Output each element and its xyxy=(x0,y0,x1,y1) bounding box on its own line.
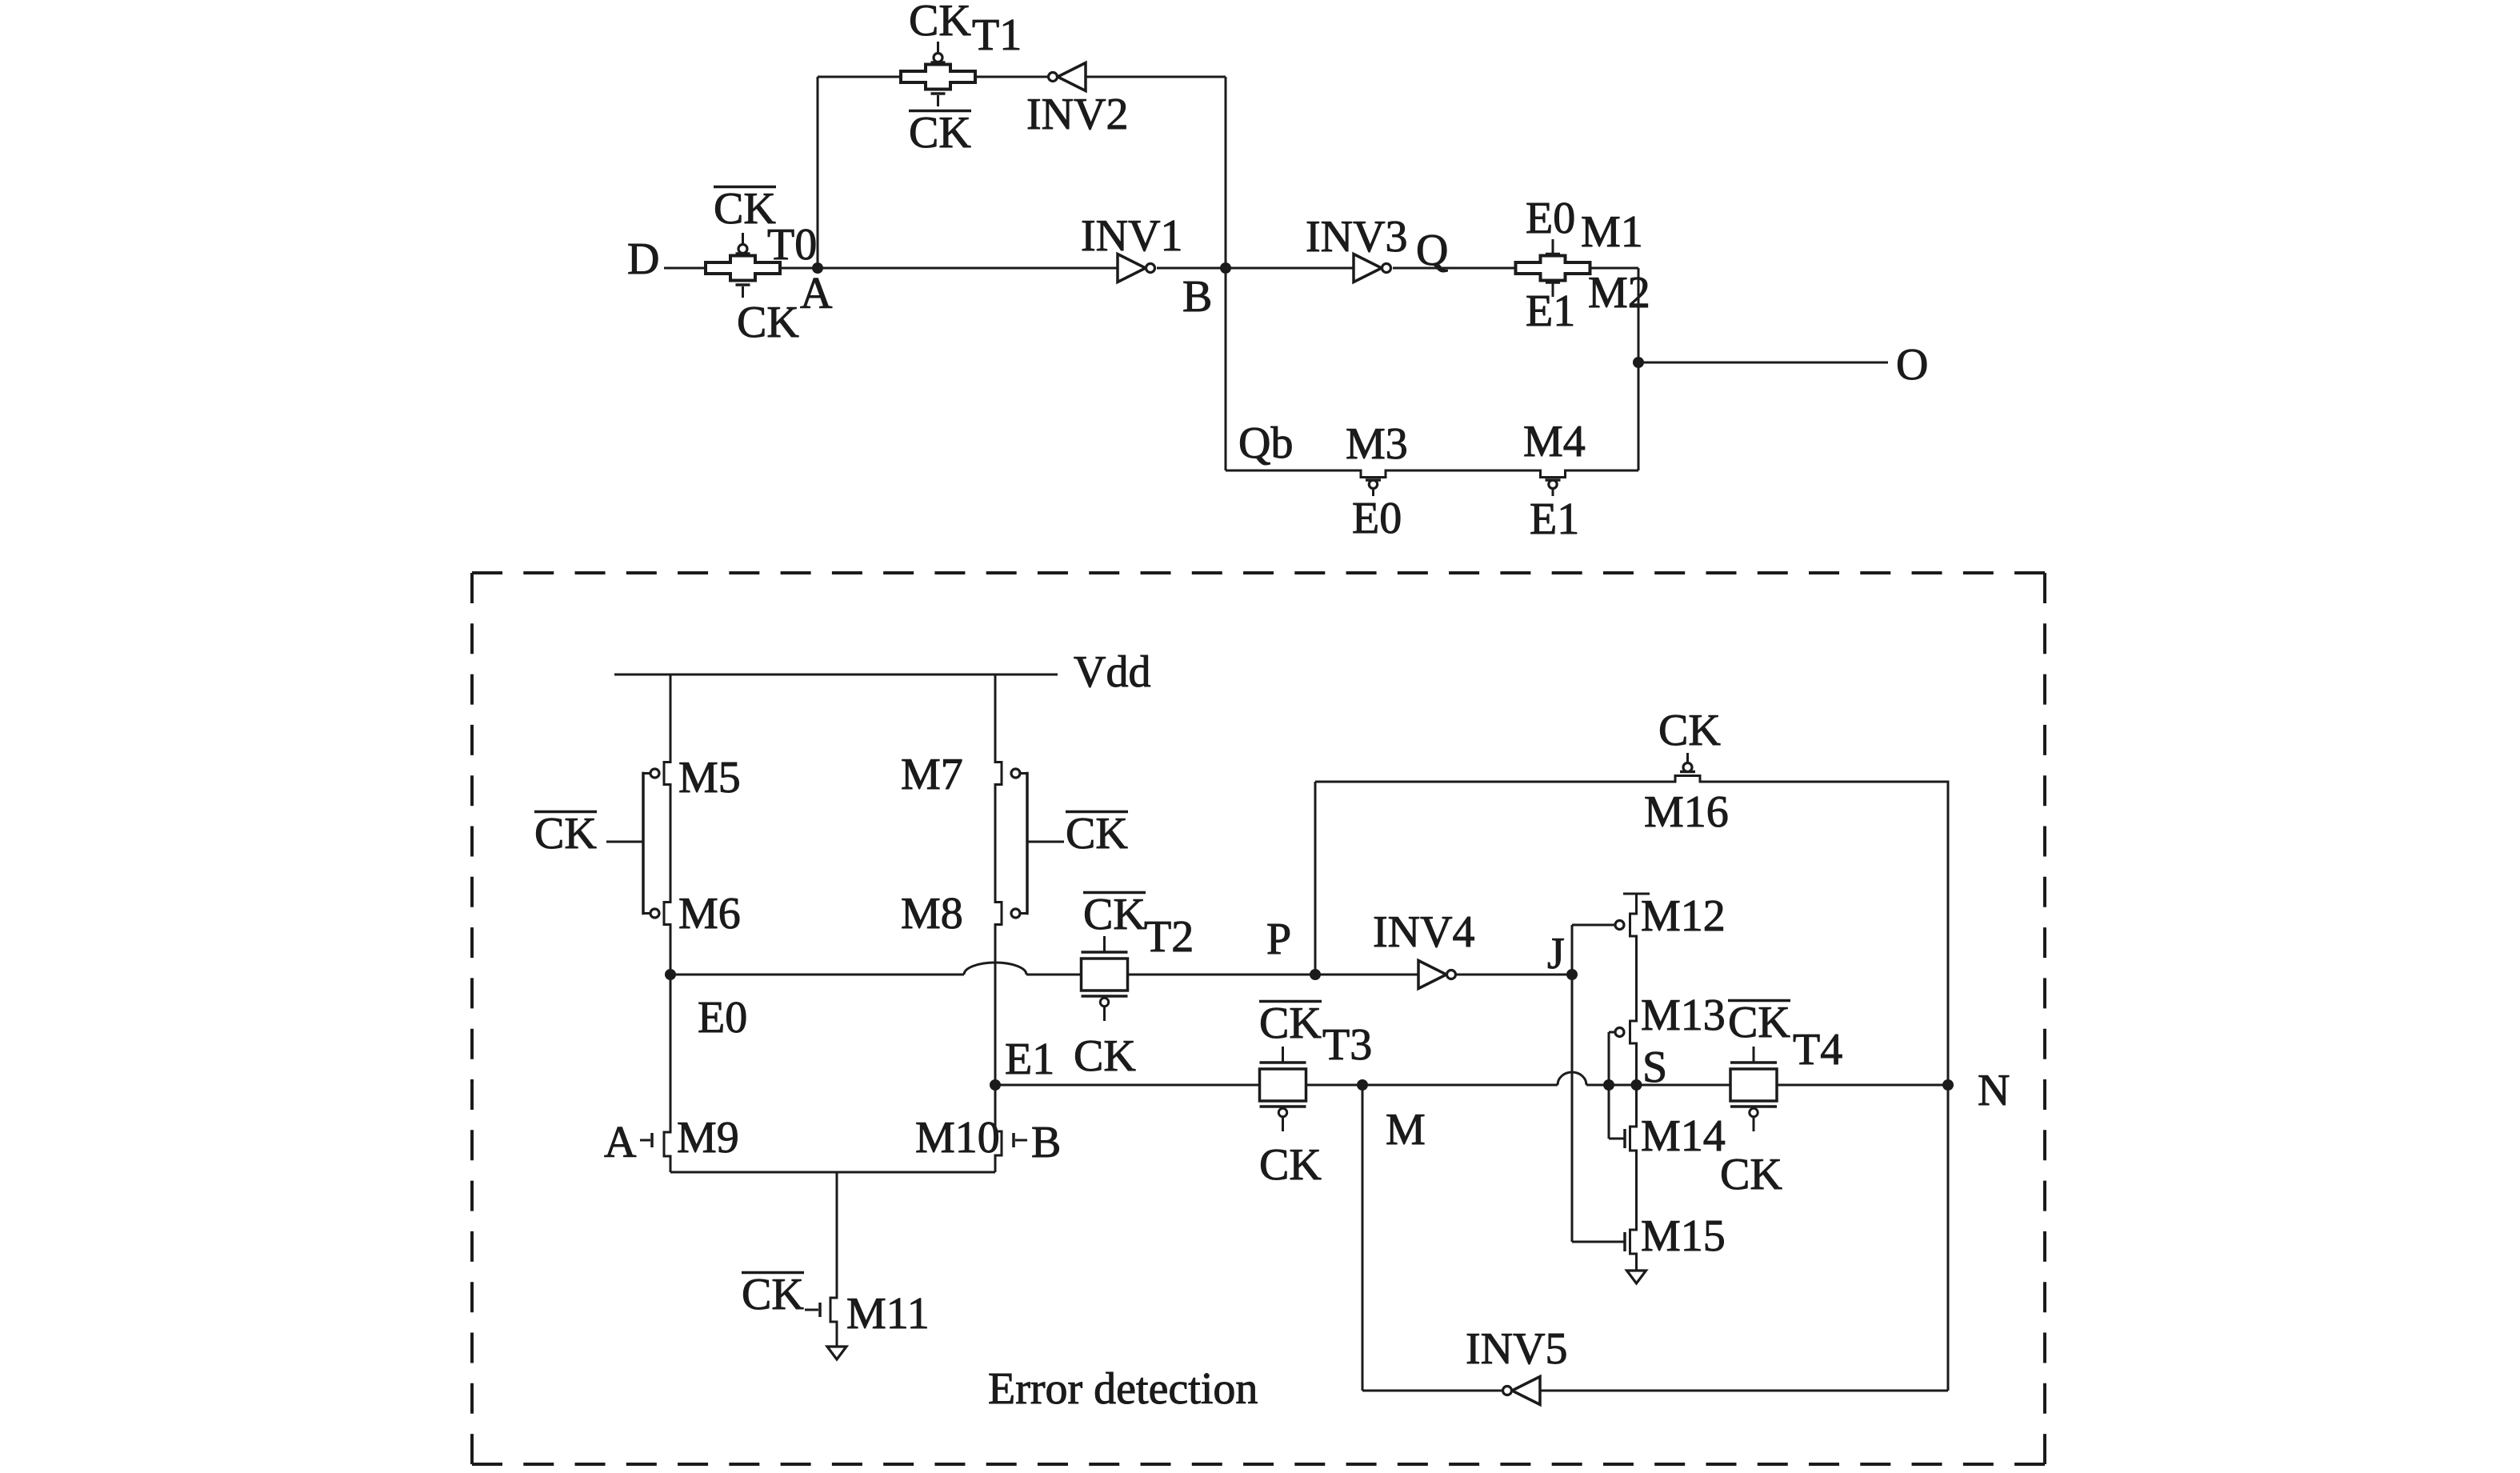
label INV5 xyxy=(1466,1324,1568,1374)
transmission gate T1 xyxy=(901,42,975,106)
label M16 xyxy=(1644,787,1729,837)
transistor M8 gate bubble xyxy=(1011,909,1027,918)
wire Vdd rail xyxy=(614,674,1058,676)
label E1 below M2 xyxy=(1526,286,1575,336)
wire N down to INV5 xyxy=(1947,1085,1950,1391)
label INV1 xyxy=(1081,211,1183,261)
label M12 xyxy=(1641,891,1726,941)
svg-text:CK: CK xyxy=(1074,1031,1136,1081)
wire J up to M12 gate xyxy=(1572,925,1615,975)
label J xyxy=(1547,929,1565,979)
svg-text:E0: E0 xyxy=(698,993,747,1043)
inverter INV1 xyxy=(1118,254,1155,282)
node E0 xyxy=(665,969,676,980)
svg-text:CK: CK xyxy=(1728,998,1790,1047)
label M7 xyxy=(901,750,963,799)
label CK above M16 xyxy=(1658,706,1721,755)
label M15 xyxy=(1641,1211,1726,1261)
svg-text:T1: T1 xyxy=(972,10,1022,60)
label CKbar above T3 xyxy=(1259,999,1322,1048)
svg-text:CK: CK xyxy=(1720,1150,1782,1199)
svg-text:M10: M10 xyxy=(915,1113,1000,1163)
label Qb xyxy=(1238,418,1293,468)
svg-text:M2: M2 xyxy=(1588,268,1650,318)
svg-text:M14: M14 xyxy=(1641,1111,1726,1161)
svg-text:INV5: INV5 xyxy=(1466,1324,1568,1374)
label M2 xyxy=(1588,268,1650,318)
label T1 xyxy=(972,10,1022,60)
transistor M10 channel xyxy=(995,1085,1002,1172)
node N xyxy=(1942,1079,1954,1091)
label INV4 xyxy=(1373,907,1475,957)
transistor M16 gate xyxy=(1680,753,1695,772)
wire M7 M8 gate to CKbar xyxy=(1027,841,1064,843)
transistor M10 gate plate xyxy=(1014,1133,1027,1147)
wire feedback to T1 xyxy=(818,76,901,78)
wire INV3 to M1 xyxy=(1393,267,1516,270)
node E1 xyxy=(990,1079,1001,1091)
svg-text:CK: CK xyxy=(1259,1140,1322,1190)
label T2 xyxy=(1144,912,1194,962)
transmission gate T2 xyxy=(1082,936,1128,1021)
svg-text:CK: CK xyxy=(737,298,799,347)
transistor M5 gate bubble xyxy=(643,769,659,778)
M12 M15 channel rail xyxy=(1623,894,1650,1271)
svg-text:T4: T4 xyxy=(1793,1025,1842,1075)
wire E0 to T2 with hop xyxy=(670,963,1081,975)
node S gate tie xyxy=(1603,1079,1614,1091)
svg-text:CK: CK xyxy=(1259,999,1322,1048)
label S xyxy=(1642,1043,1667,1092)
svg-text:M8: M8 xyxy=(901,889,963,939)
inverter INV4 xyxy=(1418,961,1456,989)
transistor M4 gate xyxy=(1546,480,1561,496)
label INV3 xyxy=(1306,212,1408,262)
svg-text:M15: M15 xyxy=(1641,1211,1726,1261)
label CKbar below T1 xyxy=(909,108,971,158)
svg-text:E0: E0 xyxy=(1526,194,1575,243)
node P xyxy=(1310,969,1321,980)
inverter INV2 xyxy=(1049,63,1086,91)
transmission gate T4 xyxy=(1730,1047,1777,1131)
wire P up to M16 rail xyxy=(1314,782,1317,975)
node B xyxy=(1220,262,1231,274)
label A at M9 xyxy=(604,1118,637,1167)
label E0 node xyxy=(698,993,747,1043)
wire M9 M10 sources xyxy=(670,1171,995,1174)
label M14 xyxy=(1641,1111,1726,1161)
label CK above T1 xyxy=(909,0,971,46)
label M8 xyxy=(901,889,963,939)
inverter INV3 xyxy=(1354,254,1391,282)
svg-text:M: M xyxy=(1386,1105,1426,1155)
svg-text:INV2: INV2 xyxy=(1026,90,1129,139)
wire to O xyxy=(1638,362,1888,364)
svg-text:J: J xyxy=(1547,929,1565,979)
label INV2 xyxy=(1026,90,1129,139)
svg-text:M11: M11 xyxy=(846,1289,930,1339)
svg-text:N: N xyxy=(1978,1066,2010,1115)
svg-text:INV3: INV3 xyxy=(1306,212,1408,262)
label A xyxy=(800,269,833,318)
label M6 xyxy=(678,889,741,939)
transistor M7 gate bubble xyxy=(1011,769,1027,778)
label E1 node xyxy=(1005,1035,1054,1084)
svg-text:B: B xyxy=(1031,1118,1061,1167)
svg-text:CK: CK xyxy=(1066,809,1128,859)
label T0 xyxy=(767,220,817,270)
transistor M14 gate plate xyxy=(1609,1129,1625,1148)
wire E1 to T3 xyxy=(995,1084,1259,1087)
label CKbar left xyxy=(534,809,597,859)
transistor M15 gate plate xyxy=(1623,1232,1626,1251)
label T3 xyxy=(1322,1020,1372,1070)
wire INV5 out to M xyxy=(1362,1085,1502,1391)
svg-text:T2: T2 xyxy=(1144,912,1194,962)
label B at M10 xyxy=(1031,1118,1061,1167)
svg-text:P: P xyxy=(1266,915,1291,964)
wire corner down to B xyxy=(1225,77,1227,268)
svg-text:M4: M4 xyxy=(1523,417,1586,466)
transistor M13 gate bubble xyxy=(1609,1028,1624,1037)
label B xyxy=(1182,272,1212,322)
dashed box Error detection xyxy=(472,573,2045,1464)
M7 M8 channel rail xyxy=(995,674,1002,1085)
wire INV5 input xyxy=(1540,1390,1948,1392)
wire INV4 to J xyxy=(1456,974,1572,976)
svg-text:O: O xyxy=(1896,340,1928,390)
wire B down to Qb xyxy=(1225,268,1227,470)
svg-text:M6: M6 xyxy=(678,889,741,939)
label CKbar above T2 xyxy=(1083,890,1146,939)
gate tie line M13 M14 to S xyxy=(1608,1032,1610,1139)
transistor pair M1 M2 xyxy=(1516,239,1590,297)
wire A up to feedback xyxy=(817,77,819,268)
svg-text:A: A xyxy=(604,1118,637,1167)
svg-text:CK: CK xyxy=(909,108,971,158)
transmission gate T3 xyxy=(1260,1047,1306,1131)
label CK below T3 xyxy=(1259,1140,1322,1190)
svg-text:A: A xyxy=(800,269,833,318)
node O junction xyxy=(1633,357,1644,368)
svg-text:Error detection: Error detection xyxy=(988,1364,1258,1414)
svg-text:D: D xyxy=(627,234,659,284)
label O xyxy=(1896,340,1928,390)
wire CKbar to M5 M6 gate xyxy=(606,841,643,843)
node S rail junction xyxy=(1631,1079,1642,1091)
M11 channel rail xyxy=(830,1172,837,1347)
label M1 xyxy=(1581,207,1643,257)
svg-text:M1: M1 xyxy=(1581,207,1643,257)
label CKbar at M11 xyxy=(742,1270,804,1319)
node J xyxy=(1566,969,1578,980)
label E0 below M3 xyxy=(1352,494,1402,543)
label CKbar above T4 xyxy=(1728,998,1790,1047)
wire T2 to P to INV4 xyxy=(1128,974,1419,976)
wire Qb branch xyxy=(1226,470,1638,478)
node D input label xyxy=(627,234,659,284)
svg-text:M5: M5 xyxy=(678,753,741,803)
svg-text:T0: T0 xyxy=(767,220,817,270)
svg-text:Qb: Qb xyxy=(1238,418,1293,468)
transistor M6 gate bubble xyxy=(643,909,659,918)
svg-text:CK: CK xyxy=(1658,706,1721,755)
svg-text:E1: E1 xyxy=(1526,286,1575,336)
label M11 xyxy=(846,1289,930,1339)
label CK below T0 xyxy=(737,298,799,347)
wire M1 to right corner xyxy=(1590,267,1639,270)
label Error detection xyxy=(988,1364,1258,1414)
wire T1 to INV2 xyxy=(975,76,1048,78)
wire INV2 to corner xyxy=(1086,76,1226,78)
transmission gate T0 xyxy=(706,233,780,298)
wire T4 to N xyxy=(1777,1084,1948,1087)
svg-text:E1: E1 xyxy=(1530,494,1579,544)
label M3 xyxy=(1346,419,1408,469)
wire B to INV3 xyxy=(1226,267,1354,270)
transistor M12 gate bubble xyxy=(1615,921,1624,930)
label M4 xyxy=(1523,417,1586,466)
ground below M11 xyxy=(827,1347,846,1359)
wire INV1 to B xyxy=(1157,267,1226,270)
label P xyxy=(1266,915,1291,964)
label M9 xyxy=(677,1113,739,1163)
node M xyxy=(1357,1079,1368,1091)
label CK below T2 xyxy=(1074,1031,1136,1081)
svg-text:E1: E1 xyxy=(1005,1035,1054,1084)
label CKbar right xyxy=(1066,809,1128,859)
wire D to T0 xyxy=(664,267,706,270)
shared gate line M5 M6 xyxy=(642,772,645,915)
node A xyxy=(812,262,823,274)
label N xyxy=(1978,1066,2010,1115)
label Vdd xyxy=(1074,647,1150,697)
label M xyxy=(1386,1105,1426,1155)
svg-text:INV1: INV1 xyxy=(1081,211,1183,261)
M5 M6 channel rail xyxy=(664,674,670,975)
label M13 xyxy=(1641,991,1726,1040)
label M10 xyxy=(915,1113,1000,1163)
svg-text:INV4: INV4 xyxy=(1373,907,1475,957)
svg-text:M3: M3 xyxy=(1346,419,1408,469)
svg-text:B: B xyxy=(1182,272,1212,322)
label T4 xyxy=(1793,1025,1842,1075)
ground below M15 xyxy=(1627,1271,1646,1283)
svg-text:Vdd: Vdd xyxy=(1074,647,1150,697)
svg-text:M16: M16 xyxy=(1644,787,1729,837)
svg-text:CK: CK xyxy=(909,0,971,46)
wire right corner down xyxy=(1638,268,1640,470)
shared gate line M7 M8 xyxy=(1026,772,1029,915)
transistor M11 gate plate xyxy=(805,1303,820,1317)
label Q xyxy=(1416,226,1448,275)
svg-text:CK: CK xyxy=(1083,890,1146,939)
svg-text:M12: M12 xyxy=(1641,891,1726,941)
label E1 below M4 xyxy=(1530,494,1579,544)
transistor M3 gate xyxy=(1366,480,1381,496)
label E0 above M1 xyxy=(1526,194,1575,243)
svg-text:E0: E0 xyxy=(1352,494,1402,543)
wire A to INV1 xyxy=(780,267,1118,270)
transistor M9 gate plate xyxy=(640,1133,652,1147)
label M5 xyxy=(678,753,741,803)
svg-text:CK: CK xyxy=(534,809,597,859)
inverter INV5 xyxy=(1503,1377,1541,1405)
svg-text:M13: M13 xyxy=(1641,991,1726,1040)
svg-text:M9: M9 xyxy=(677,1113,739,1163)
svg-text:M7: M7 xyxy=(901,750,963,799)
wire J down to M15 gate xyxy=(1572,975,1624,1242)
wire T3 to M to S with hop xyxy=(1306,1072,1731,1085)
label CKbar above T0 xyxy=(714,184,776,234)
wire M16 row xyxy=(1315,776,1948,1086)
label CK below T4 xyxy=(1720,1150,1782,1199)
transistor M9 channel xyxy=(664,975,670,1172)
svg-text:CK: CK xyxy=(742,1270,804,1319)
svg-text:T3: T3 xyxy=(1322,1020,1372,1070)
